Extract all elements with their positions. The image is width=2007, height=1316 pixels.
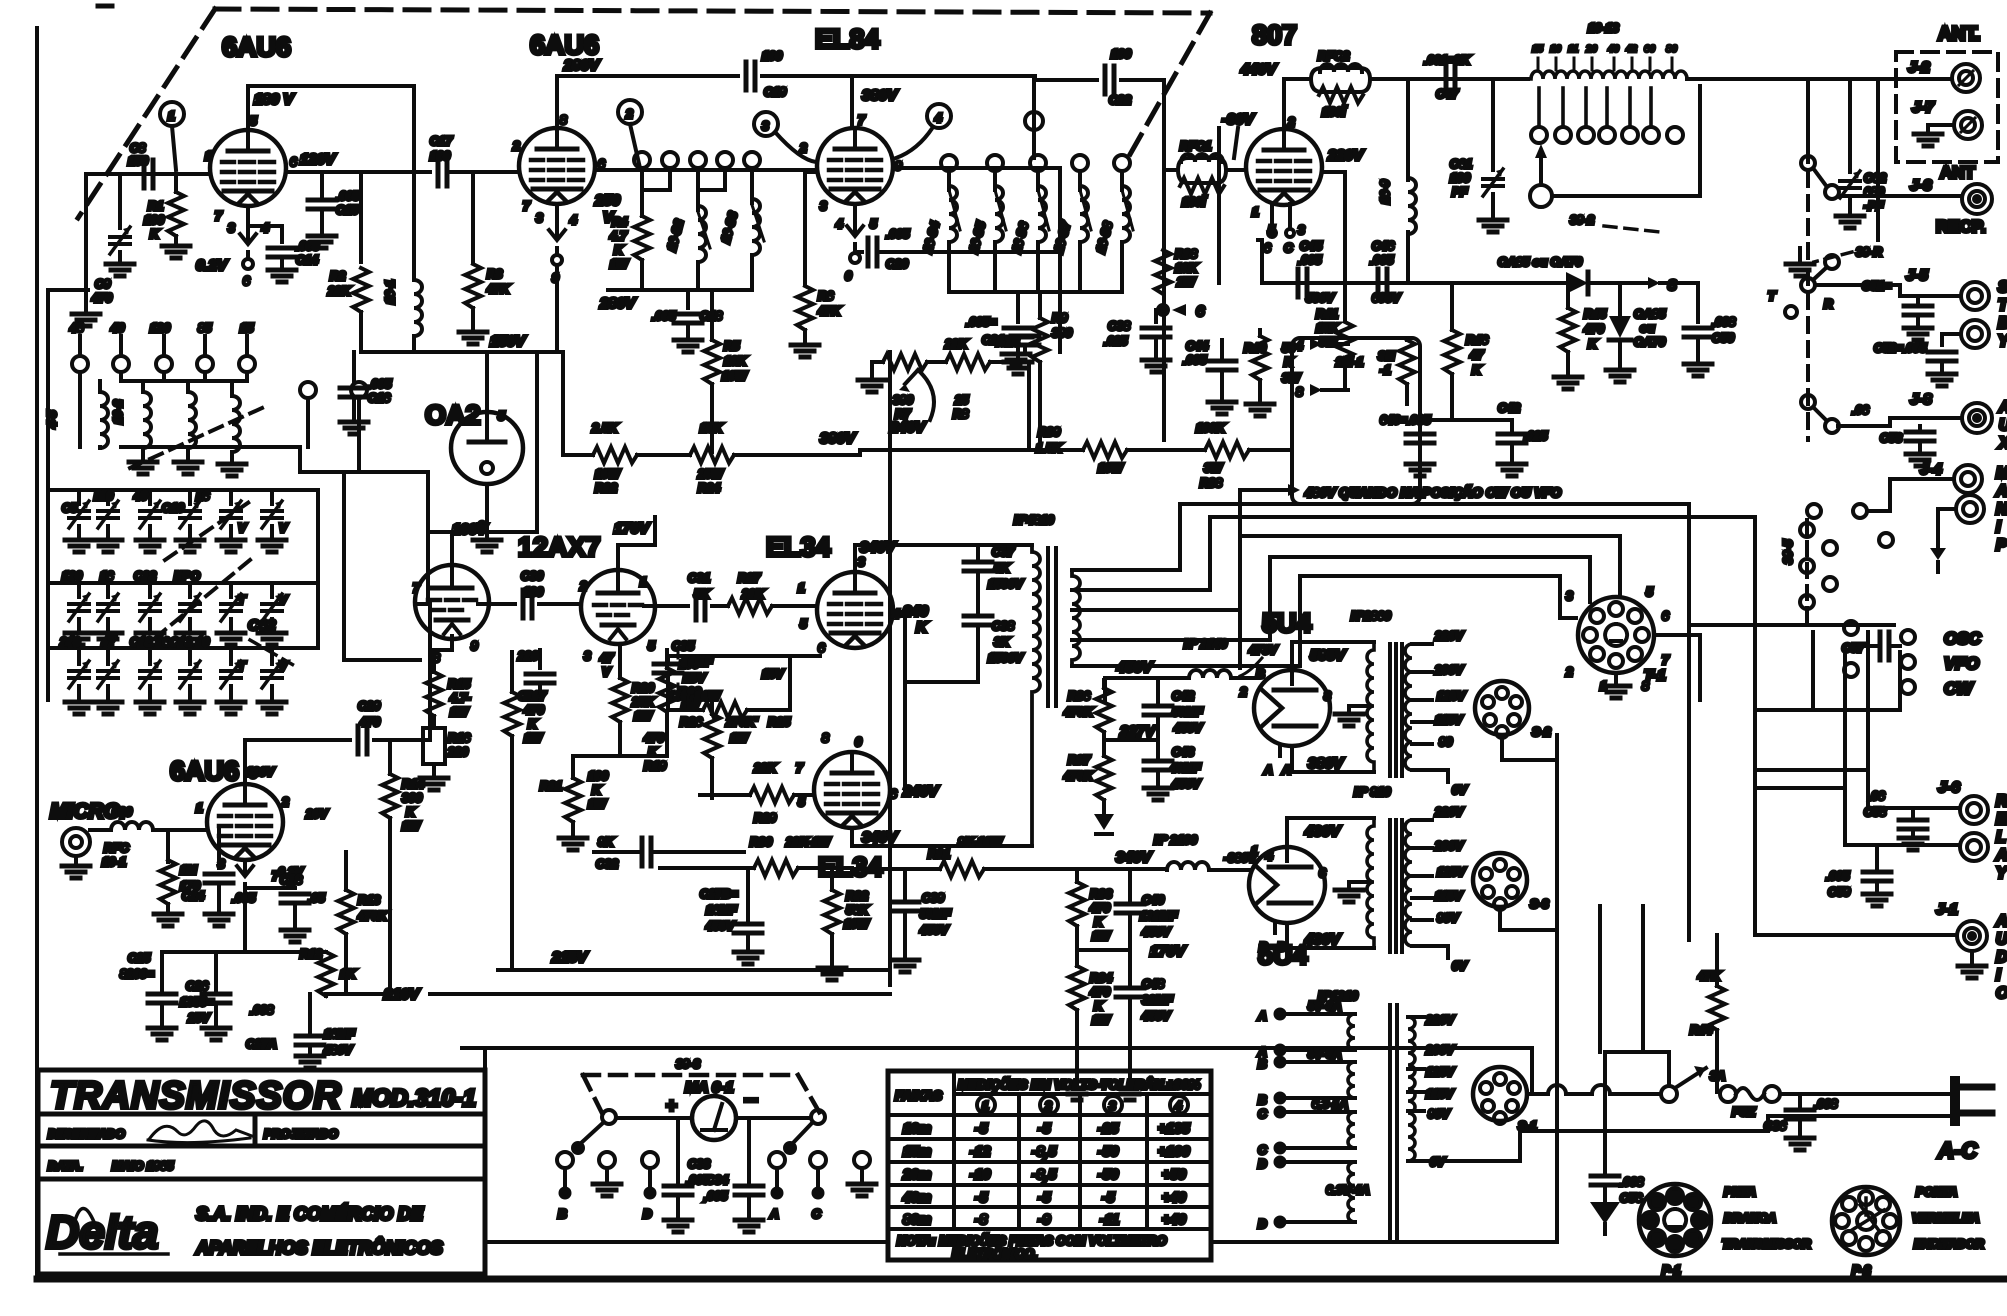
svg-text:C26: C26 <box>186 979 208 993</box>
svg-text:D: D <box>1258 1157 1267 1171</box>
tube V3 EL84 <box>817 128 893 204</box>
svg-text:2: 2 <box>1565 665 1573 679</box>
svg-text:.005: .005 <box>886 227 910 241</box>
svg-text:0V: 0V <box>1452 959 1468 973</box>
transformer T3 taps <box>1408 1013 1455 1169</box>
svg-text:-8,5: -8,5 <box>1032 1166 1056 1182</box>
svg-text:340V: 340V <box>860 539 897 556</box>
svg-text:20m: 20m <box>902 1166 931 1182</box>
svg-text:C25: C25 <box>128 951 150 965</box>
svg-text:R17: R17 <box>524 689 547 703</box>
label MANIP <box>1995 465 2007 554</box>
diode OA85 vertical <box>1606 283 1666 382</box>
jack J-7 <box>1912 99 1982 139</box>
wire 807 screen right <box>1322 172 1345 283</box>
wire 227V node <box>1104 738 1158 742</box>
svg-text:450V: 450V <box>1171 777 1201 791</box>
svg-text:TRANSMISSOR: TRANSMISSOR <box>1722 1237 1811 1251</box>
wire long vertical 1600 <box>1598 906 1602 1052</box>
capacitor C59 <box>1826 845 1891 906</box>
svg-text:R9: R9 <box>1052 311 1068 325</box>
svg-text:100: 100 <box>1111 47 1131 61</box>
resistor R12 <box>300 947 357 996</box>
svg-text:.005: .005 <box>652 309 676 323</box>
svg-text:U: U <box>1996 931 2007 948</box>
svg-text:ELETRÔNICO.: ELETRÔNICO. <box>952 1246 1037 1261</box>
svg-text:R39: R39 <box>1038 425 1060 439</box>
svg-text:42: 42 <box>1625 44 1638 55</box>
svg-text:K: K <box>528 717 538 731</box>
transformer T3 primary <box>1408 1017 1415 1161</box>
svg-text:1K: 1K <box>340 967 357 981</box>
svg-text:2: 2 <box>579 579 587 593</box>
svg-text:595V: 595V <box>1310 647 1347 664</box>
svg-text:DATA.: DATA. <box>48 1159 83 1173</box>
capacitor C37 <box>964 545 1024 612</box>
ground MANIP <box>1930 540 1946 572</box>
svg-text:R30: R30 <box>750 835 772 849</box>
transformer fil 2 winding <box>1349 818 1412 952</box>
svg-text:5: 5 <box>870 217 877 231</box>
output transformer T2 <box>1012 513 1080 846</box>
tube V1 6AU6 <box>210 130 286 206</box>
svg-text:40m: 40m <box>902 1189 931 1205</box>
svg-text:OA85: OA85 <box>1634 307 1666 321</box>
svg-text:C33: C33 <box>688 1157 710 1171</box>
wire B+ drop to rectifier <box>1238 504 1242 668</box>
test point 4 <box>896 104 951 158</box>
meter M1 <box>666 1087 758 1140</box>
svg-text:+50: +50 <box>1162 1166 1186 1182</box>
svg-text:B: B <box>1998 315 2007 332</box>
ground J-7 <box>1914 134 1942 146</box>
svg-text:290V: 290V <box>563 57 601 74</box>
svg-text:,005: ,005 <box>703 1189 728 1203</box>
tap terminals <box>1531 127 1683 143</box>
svg-text:85: 85 <box>198 321 212 335</box>
wire bank to center <box>415 602 428 606</box>
wire V6a grid feed <box>428 602 432 740</box>
svg-text:100: 100 <box>430 149 450 163</box>
choke RFC mic <box>90 822 207 869</box>
svg-text:C37: C37 <box>992 545 1015 559</box>
capacitor C50 <box>1660 283 1736 376</box>
wire to J-8 <box>1838 418 1960 426</box>
svg-text:C5: C5 <box>62 501 78 515</box>
svg-text:Y: Y <box>1996 865 2007 882</box>
wire wafer box <box>1755 632 1900 710</box>
svg-text:3: 3 <box>1109 1099 1116 1113</box>
svg-text:6: 6 <box>818 641 825 655</box>
capacitor C43 <box>1452 401 1548 476</box>
svg-text:S.A. IND. E COMÉRCIO DE: S.A. IND. E COMÉRCIO DE <box>196 1203 424 1224</box>
capacitor C16 <box>340 352 392 434</box>
wire long vertical 890 <box>888 352 892 985</box>
svg-text:10: 10 <box>1550 44 1562 55</box>
svg-text:80: 80 <box>1666 44 1678 55</box>
svg-text:2W: 2W <box>1176 275 1197 289</box>
svg-text:U: U <box>1999 417 2007 434</box>
resistor R10 <box>154 830 200 926</box>
wire 180V plate bus <box>248 86 414 130</box>
svg-text:50MF: 50MF <box>920 907 951 921</box>
svg-text:C: C <box>812 1207 821 1221</box>
wire S-2 drop <box>1500 736 1557 930</box>
svg-text:280V: 280V <box>599 295 637 312</box>
svg-text:6AU6: 6AU6 <box>530 30 599 60</box>
svg-text:5: 5 <box>498 409 505 423</box>
wire 807 cathode pins <box>1264 204 1294 255</box>
ground fil 1 <box>1335 714 1363 726</box>
svg-text:450V: 450V <box>1141 925 1171 939</box>
svg-text:10-13: 10-13 <box>1588 21 1619 35</box>
AC plug <box>1937 1076 1992 1163</box>
meter terminal B <box>557 1152 573 1221</box>
svg-text:100: 100 <box>1450 171 1470 185</box>
svg-text:150V: 150V <box>490 333 527 350</box>
svg-text:J-1: J-1 <box>1936 901 1958 918</box>
svg-text:NOTA: MEDIÇÕES FEITAS COM VOLT: NOTA: MEDIÇÕES FEITAS COM VOLTMETRO <box>897 1233 1167 1248</box>
svg-text:C51=: C51= <box>1862 279 1891 293</box>
svg-text:OA70: OA70 <box>1634 335 1666 349</box>
svg-text:16-1: 16-1 <box>383 280 397 304</box>
svg-text:8: 8 <box>822 731 829 745</box>
svg-text:.008: .008 <box>250 1003 274 1017</box>
svg-text:90: 90 <box>1439 735 1453 749</box>
coil tap ticks <box>1532 44 1678 70</box>
border left <box>35 28 39 1279</box>
svg-text:390V: 390V <box>820 430 857 447</box>
wire cathode bus V10 <box>245 950 326 954</box>
svg-text:C42: C42 <box>1172 689 1194 703</box>
svg-text:5: 5 <box>648 639 655 653</box>
wire vertical 1878 <box>1876 79 1880 240</box>
svg-text:PROJETADO: PROJETADO <box>264 1127 338 1141</box>
relay box SM-1 <box>1292 338 1420 504</box>
svg-text:D: D <box>1996 949 2007 966</box>
svg-text:R6: R6 <box>818 289 834 303</box>
svg-text:D: D <box>1258 1217 1267 1231</box>
svg-text:C43: C43 <box>1172 745 1194 759</box>
tube V11 5U4 <box>1249 844 1326 954</box>
label ponta vermelha <box>1912 1185 1984 1251</box>
tank coil 10-13 <box>1531 21 1687 79</box>
resistor R32 <box>818 869 870 980</box>
svg-text:5U4: 5U4 <box>1262 608 1312 638</box>
svg-text:K: K <box>1472 363 1482 377</box>
svg-text:J-2: J-2 <box>1908 59 1930 76</box>
svg-text:10K: 10K <box>1175 261 1198 275</box>
svg-text:2.5K: 2.5K <box>591 421 619 435</box>
ground V6a cathode <box>420 778 448 790</box>
jack J-1 audio <box>1755 901 1987 978</box>
choke feed 5U4a <box>1189 670 1254 699</box>
capacitor C30 <box>521 569 543 618</box>
svg-text:470K: 470K <box>357 909 388 923</box>
switch wafer 39-5 <box>1781 520 1837 622</box>
switch dashed wafer mid <box>1806 270 1810 440</box>
svg-text:PNTA: PNTA <box>1724 1185 1756 1199</box>
svg-text:C56: C56 <box>1620 1191 1642 1205</box>
RFC1 grid choke 807 <box>1178 139 1226 209</box>
label AUDIO <box>1995 913 2007 1002</box>
svg-text:380V: 380V <box>862 87 899 104</box>
tube V6 12AX7b <box>579 570 655 663</box>
svg-text:220V: 220V <box>1425 1013 1455 1027</box>
wire bus L1 end <box>1400 504 1689 625</box>
band switch wiper 39-2 <box>1530 86 1700 232</box>
svg-text:C15: C15 <box>336 203 358 217</box>
svg-text:R: R <box>1996 793 2007 810</box>
svg-text:C27B=: C27B= <box>700 887 738 901</box>
resistor R22 <box>591 421 637 495</box>
wire cathode V10 <box>237 860 304 952</box>
jack J-3 <box>1839 177 1992 214</box>
transformer fil 1 winding <box>1349 642 1412 776</box>
wire plate V10 <box>245 740 430 784</box>
label RELAY <box>1995 793 2007 882</box>
svg-text:C16: C16 <box>368 391 390 405</box>
resistor R3 <box>459 172 510 344</box>
jack J-5b <box>1942 320 1989 348</box>
svg-text:220: 220 <box>447 745 468 759</box>
resistor R27 grid <box>644 571 817 620</box>
svg-text:1350=: 1350= <box>180 995 214 1009</box>
svg-text:3: 3 <box>228 221 235 235</box>
svg-text:-5: -5 <box>1038 1120 1051 1136</box>
svg-text:RECP.: RECP. <box>1936 217 1986 236</box>
wire VFO left rail <box>48 290 318 700</box>
svg-text:1: 1 <box>205 149 212 163</box>
svg-text:100: 100 <box>144 213 164 227</box>
svg-text:9K: 9K <box>598 835 615 849</box>
wire mains return <box>1445 1116 1954 1161</box>
ground fil 2 <box>1335 890 1363 902</box>
svg-text:8: 8 <box>250 767 257 781</box>
svg-text:1: 1 <box>640 575 647 589</box>
label ponta branca <box>1722 1185 1811 1251</box>
svg-text:-5: -5 <box>1102 1189 1115 1205</box>
svg-text:J-7: J-7 <box>1912 99 1934 116</box>
boundary dashed diagonal right <box>1124 13 1210 165</box>
svg-text:15: 15 <box>240 321 254 335</box>
capacitor C57 <box>1842 621 1900 677</box>
trimmer bank row 2 <box>62 569 288 645</box>
net arrow B <box>1296 384 1348 399</box>
capacitor C38b <box>964 616 1024 682</box>
svg-text:2: 2 <box>512 139 520 153</box>
svg-text:6: 6 <box>290 155 297 169</box>
svg-text:R26: R26 <box>680 715 702 729</box>
meter switch right <box>736 1110 825 1153</box>
transformer T3 windings left <box>1348 1014 1355 1222</box>
svg-text:125V: 125V <box>1426 1065 1455 1079</box>
resistor R44 <box>1690 935 1725 1092</box>
svg-text:R36: R36 <box>1068 689 1090 703</box>
svg-text:220: 220 <box>517 649 538 663</box>
svg-text:BRANCA: BRANCA <box>1724 1211 1776 1225</box>
net tabs OSC VFO CW <box>1901 629 1982 698</box>
choke feed 5U4b <box>1167 849 1273 870</box>
wire VFO box right edge <box>316 490 320 648</box>
resistor R4 <box>609 168 670 290</box>
svg-text:470K: 470K <box>1063 705 1094 719</box>
svg-text:C42: C42 <box>1498 401 1520 415</box>
resistor R31 <box>928 835 1004 877</box>
svg-text:C38: C38 <box>992 619 1014 633</box>
resistor R20 <box>599 646 655 756</box>
svg-text:A: A <box>1263 763 1273 777</box>
svg-text:VERMELHA: VERMELHA <box>1912 1211 1979 1225</box>
svg-text:K: K <box>1588 337 1598 351</box>
capacitor C21 <box>966 292 1032 374</box>
svg-text:470: 470 <box>91 291 112 305</box>
table circled columns <box>977 1096 1188 1114</box>
svg-text:.001=3K: .001=3K <box>1424 53 1471 67</box>
meter terminal A <box>769 1152 785 1221</box>
svg-text:40: 40 <box>1607 44 1620 55</box>
svg-text:J-8: J-8 <box>1910 391 1932 408</box>
svg-text:3: 3 <box>1298 223 1305 237</box>
svg-text:25: 25 <box>954 393 969 407</box>
svg-text:C18: C18 <box>130 635 152 649</box>
wire antenna bus <box>1687 77 1948 81</box>
wire 150V node <box>361 350 563 354</box>
svg-text:Nº 2100: Nº 2100 <box>1154 833 1197 847</box>
svg-text:15K: 15K <box>1316 321 1339 335</box>
svg-text:0V: 0V <box>1452 783 1468 797</box>
wire V6a cathode chain <box>434 636 452 672</box>
wire T-1 outputs <box>1654 625 1894 700</box>
svg-text:16MF: 16MF <box>324 1027 355 1041</box>
svg-text:R33: R33 <box>1090 887 1112 901</box>
svg-text:EL84: EL84 <box>815 24 880 54</box>
svg-text:47K: 47K <box>817 304 841 318</box>
wire RFC1 left to bus <box>1164 80 1178 440</box>
wire cathode 807 drop <box>1258 240 1262 283</box>
svg-text:+40: +40 <box>1162 1189 1186 1205</box>
svg-text:480V: 480V <box>323 1043 353 1057</box>
wire 340V bus <box>852 869 1167 985</box>
svg-text:-1: -1 <box>1380 363 1391 377</box>
tube V9 5U4 <box>1254 667 1331 777</box>
svg-text:.005: .005 <box>1826 869 1850 883</box>
svg-text:A: A <box>1998 399 2007 416</box>
svg-text:+: + <box>666 1096 677 1117</box>
svg-text:22K: 22K <box>753 761 777 775</box>
wire R20-R19-R21 junction <box>573 754 667 758</box>
branch 16-S7 <box>1051 155 1091 292</box>
VFO switch stack 4 <box>218 381 246 476</box>
trimmer C61 <box>1450 79 1507 232</box>
svg-text:6.3-1A: 6.3-1A <box>1312 1097 1348 1111</box>
svg-text:C53: C53 <box>1880 431 1902 445</box>
svg-text:FAIXAS: FAIXAS <box>895 1088 942 1103</box>
svg-text:3: 3 <box>584 649 591 663</box>
svg-text:A: A <box>1257 1009 1267 1023</box>
svg-text:90V: 90V <box>1437 911 1459 925</box>
svg-text:C35: C35 <box>672 639 694 653</box>
wire OA2 anode <box>485 352 489 412</box>
svg-text:450V: 450V <box>919 923 949 937</box>
VFO terminal row <box>69 321 367 472</box>
svg-text:1W: 1W <box>1092 1013 1112 1027</box>
svg-text:90V: 90V <box>1428 1107 1450 1121</box>
svg-text:2: 2 <box>1044 1099 1052 1113</box>
svg-text:10W: 10W <box>1098 461 1124 475</box>
meter terminal D <box>642 1152 658 1221</box>
svg-text:2: 2 <box>625 107 633 121</box>
svg-text:.005: .005 <box>336 189 360 203</box>
wire R13 bottom join <box>326 852 390 994</box>
svg-text:100: 100 <box>762 49 782 63</box>
svg-text:240V: 240V <box>889 419 927 436</box>
tube V2 6AU6 <box>519 128 595 204</box>
svg-text:K: K <box>614 243 624 257</box>
svg-text:K: K <box>150 227 160 241</box>
meter terminal C <box>810 1152 826 1221</box>
border bottom <box>37 1276 2004 1283</box>
wire 170V node <box>1077 948 1130 952</box>
socket S-1 <box>1473 1067 1537 1133</box>
svg-text:.005=: .005= <box>966 315 996 329</box>
capacitor C58 <box>1864 789 1927 850</box>
svg-text:16MF: 16MF <box>706 903 737 917</box>
svg-text:-10: -10 <box>970 1166 990 1182</box>
svg-text:K: K <box>1094 915 1104 929</box>
svg-text:5K: 5K <box>994 561 1011 575</box>
tube V4 807 <box>1246 129 1322 205</box>
capacitor C46 <box>1370 239 1401 305</box>
svg-text:K: K <box>592 783 602 797</box>
svg-text:R45: R45 <box>1584 307 1606 321</box>
svg-text:6: 6 <box>1319 866 1326 880</box>
socket S-2 <box>1475 681 1551 739</box>
svg-text:100K: 100K <box>1196 421 1226 435</box>
svg-text:.008: .008 <box>1814 1097 1838 1111</box>
resistor R40 <box>1244 330 1302 416</box>
svg-text:A-C: A-C <box>1937 1138 1978 1163</box>
svg-text:.05: .05 <box>308 891 325 905</box>
svg-text:3: 3 <box>536 211 543 225</box>
svg-text:R2: R2 <box>330 269 346 283</box>
svg-text:Nº2860: Nº2860 <box>1351 609 1391 623</box>
svg-text:C29: C29 <box>358 699 380 713</box>
capacitor C35 <box>654 639 820 710</box>
junction arrow 6 <box>1158 303 1205 320</box>
svg-text:C46: C46 <box>1372 239 1394 253</box>
svg-text:EXCITADOR: EXCITADOR <box>1914 1237 1984 1251</box>
svg-text:470: 470 <box>643 731 664 745</box>
svg-text:15K: 15K <box>700 421 723 435</box>
svg-text:430V: 430V <box>1304 823 1342 840</box>
wire grid line V1 <box>86 174 210 312</box>
svg-text:120: 120 <box>150 321 170 335</box>
svg-text:300: 300 <box>402 791 422 805</box>
svg-text:-8: -8 <box>975 1211 988 1227</box>
svg-text:170V: 170V <box>1150 943 1187 960</box>
capacitor C8 <box>128 141 153 188</box>
wire grid bus V2-EL84 <box>595 168 817 172</box>
wire plate EL84 <box>850 76 854 128</box>
svg-text:.005: .005 <box>1298 253 1322 267</box>
svg-text:3K: 3K <box>994 635 1011 649</box>
svg-text:6: 6 <box>243 274 250 288</box>
resistor R9 <box>1032 292 1072 450</box>
coil 16-1 <box>383 280 422 336</box>
svg-text:-50: -50 <box>1098 1166 1118 1182</box>
svg-text:10K: 10K <box>724 354 747 368</box>
